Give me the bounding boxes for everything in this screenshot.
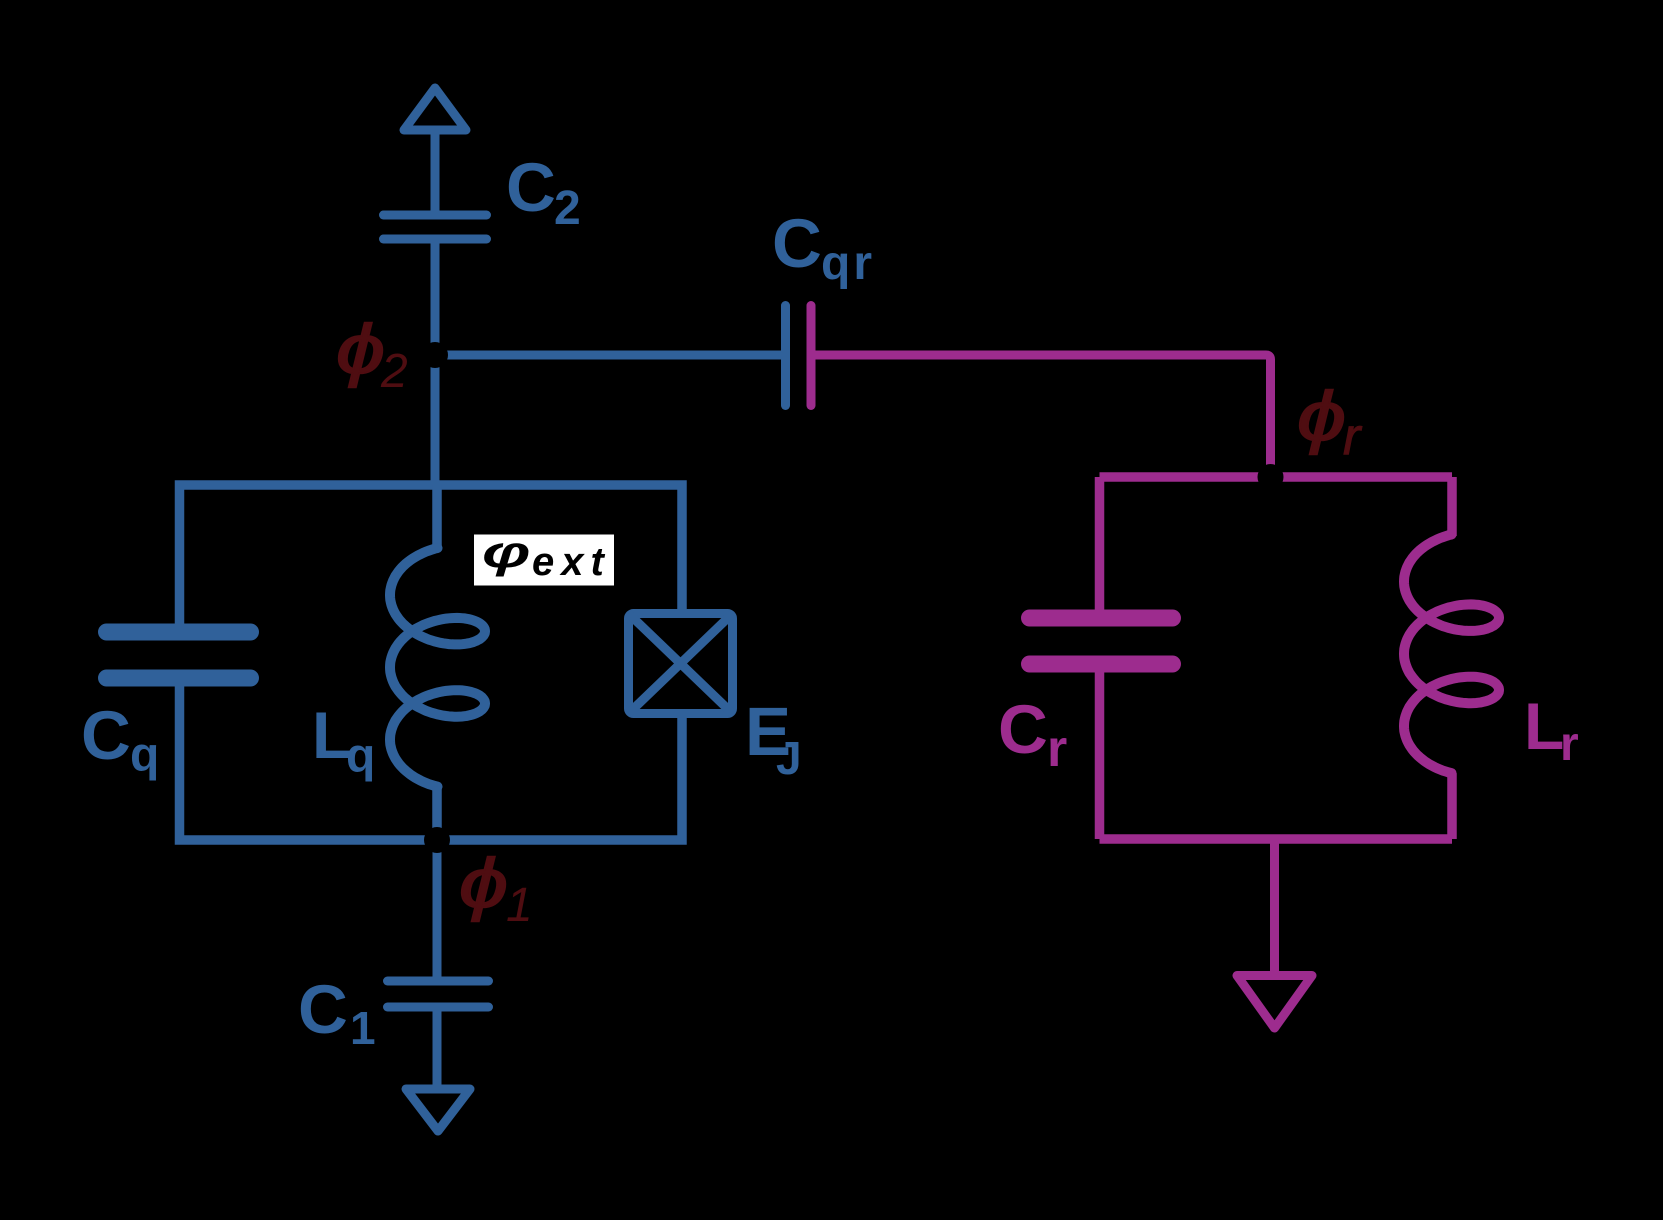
- inductor Lq: [432, 485, 442, 550]
- svg-text:r: r: [1560, 718, 1579, 771]
- svg-text:r: r: [1047, 720, 1067, 778]
- svg-text:C: C: [81, 697, 131, 774]
- node phi1: [424, 827, 450, 853]
- wire: [433, 1007, 442, 1085]
- capacitor C1: [388, 981, 489, 1007]
- svg-text:q: q: [130, 729, 159, 782]
- node phi2: [422, 342, 448, 368]
- node phi_r: [1258, 464, 1284, 490]
- svg-text:C: C: [772, 205, 822, 282]
- svg-text:C: C: [998, 691, 1048, 768]
- wire bottom-left: [180, 687, 438, 841]
- capacitor Cqr magenta plate: [807, 306, 816, 406]
- svg-text:r: r: [1343, 408, 1363, 466]
- svg-text:C: C: [298, 971, 348, 1048]
- wire: [431, 134, 440, 215]
- resonator left branch wire: [1095, 477, 1105, 618]
- phi_ext white box: [474, 535, 614, 586]
- svg-text:ϕ: ϕ: [1297, 377, 1346, 455]
- resonator top rail: [1100, 472, 1453, 482]
- capacitor Cqr blue plate: [781, 306, 790, 406]
- wire top-left: [180, 485, 438, 624]
- svg-text:φ: φ: [482, 527, 531, 577]
- svg-text:qr: qr: [821, 237, 875, 290]
- ground (resonator): [1237, 976, 1312, 1029]
- capacitor Cr: [1030, 618, 1173, 664]
- wire Cqr to phi_r corner: [816, 355, 1271, 477]
- wire to ground: [1270, 839, 1279, 971]
- svg-text:ϕ: ϕ: [336, 310, 385, 388]
- svg-text:ext: ext: [532, 540, 611, 584]
- qubit loop top rail + left/right corners: [180, 485, 683, 840]
- svg-text:ϕ: ϕ: [459, 844, 508, 922]
- wire: [1095, 664, 1105, 839]
- ground (qubit): [406, 1089, 470, 1131]
- josephson junction EJ: [629, 614, 733, 714]
- capacitor Cq: [107, 632, 251, 678]
- svg-text:C: C: [506, 149, 556, 226]
- svg-text:1: 1: [506, 879, 533, 932]
- wire: [431, 239, 440, 485]
- wire phi1 down to C1: [433, 840, 442, 981]
- svg-text:q: q: [346, 730, 375, 783]
- capacitor C2: [384, 215, 487, 239]
- svg-text:1: 1: [350, 1002, 376, 1054]
- inductor Lr: [1447, 477, 1457, 536]
- wire phi2 to Cqr: [435, 351, 781, 360]
- svg-text:2: 2: [554, 182, 581, 235]
- svg-text:L: L: [1524, 689, 1564, 763]
- wire top-right: [437, 485, 682, 614]
- svg-text:2: 2: [380, 345, 408, 398]
- wire bottom-right: [437, 714, 682, 841]
- resonator bottom rail: [1100, 834, 1453, 844]
- svg-text:J: J: [776, 732, 802, 784]
- power arrow up (top): [404, 88, 466, 130]
